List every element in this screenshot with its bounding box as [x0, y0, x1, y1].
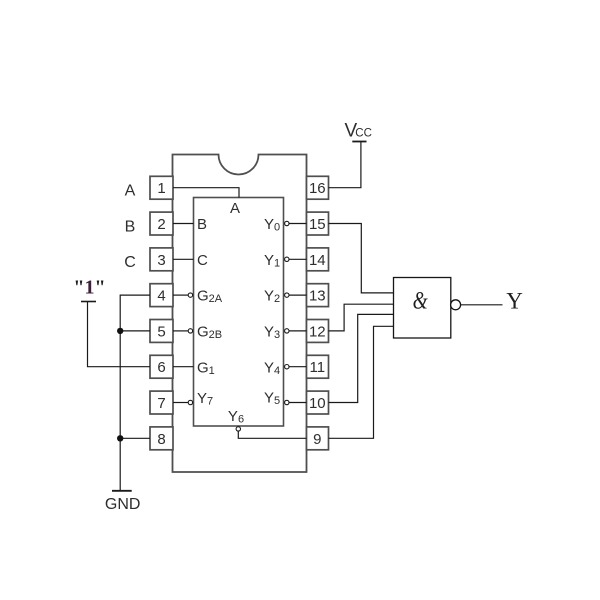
wire rail to pin5 [120, 330, 150, 332]
logic-1 source symbol [73, 277, 105, 302]
pin 6 box [150, 355, 173, 378]
svg-text:3: 3 [274, 329, 280, 341]
wire Y3 to pin12 [289, 330, 307, 332]
Vcc symbol [345, 121, 372, 142]
inversion bubble Y7 [188, 400, 192, 404]
svg-text:&: & [413, 286, 429, 314]
wire Y1 to pin14 [289, 258, 307, 260]
svg-text:4: 4 [157, 288, 165, 305]
pin 14 box [307, 248, 329, 271]
svg-text:Y: Y [264, 390, 274, 407]
junction dot pin8 rail [117, 435, 123, 441]
inversion bubble Y4 [285, 365, 289, 369]
gate output inversion bubble [451, 300, 461, 310]
inversion bubble Y0 [285, 221, 289, 225]
svg-text:13: 13 [309, 288, 326, 305]
wire Y6 to pin9 [238, 431, 306, 438]
inversion bubble G2A [188, 293, 192, 297]
svg-text:CC: CC [355, 128, 372, 140]
svg-text:15: 15 [309, 216, 326, 233]
IC U1 body (74138 DIP outline with notch) [173, 155, 307, 473]
wire pin4 to G2A [173, 294, 188, 296]
pin 15 box [307, 212, 329, 235]
wire pin5 to G2B [173, 330, 188, 332]
inner logic block outline [194, 198, 284, 427]
junction dot pin5 rail [117, 328, 123, 334]
svg-text:Y: Y [506, 288, 523, 313]
svg-text:8: 8 [157, 431, 165, 448]
wire Y0 to pin15 [289, 223, 307, 225]
wire pin12 to gate input 2 [329, 304, 394, 331]
svg-text:9: 9 [313, 431, 321, 448]
svg-text:Y: Y [264, 359, 274, 376]
inversion bubble Y2 [285, 293, 289, 297]
svg-text:5: 5 [157, 323, 165, 340]
NAND gate U2 body [394, 278, 451, 339]
svg-text:1: 1 [274, 257, 280, 269]
wire Y4 to pin11 [289, 366, 307, 368]
inversion bubble Y5 [285, 400, 289, 404]
svg-text:11: 11 [310, 359, 326, 376]
pin 5 box [150, 320, 173, 343]
pin 13 box [307, 284, 329, 307]
wire pin2 to B [173, 223, 194, 225]
svg-text:12: 12 [309, 323, 326, 340]
pin 4 box [150, 284, 173, 307]
wire pin1 to input A [173, 188, 239, 198]
wire pin9 to gate input 4 [329, 326, 394, 438]
wire pin3 to C [173, 258, 194, 260]
wire pin10 to gate input 3 [329, 314, 394, 402]
svg-text:0: 0 [274, 222, 280, 234]
wire pin15 to gate input 1 [329, 224, 394, 293]
svg-text:2: 2 [274, 293, 280, 305]
svg-text:2: 2 [157, 216, 165, 233]
pin 16 box [307, 176, 329, 199]
inversion bubble Y3 [285, 329, 289, 333]
wire Y5 to pin10 [289, 402, 307, 404]
svg-text:3: 3 [157, 252, 165, 269]
wire ground rail (pin4 corner down to GND) [120, 295, 150, 491]
svg-text:4: 4 [274, 365, 280, 377]
pin 9 box [307, 427, 329, 450]
inversion bubble G2B [188, 329, 192, 333]
svg-text:Y: Y [264, 216, 274, 233]
svg-text:7: 7 [157, 395, 165, 412]
svg-text:B: B [197, 216, 207, 233]
svg-text:Y: Y [264, 252, 274, 269]
svg-text:A: A [125, 183, 136, 200]
svg-text:6: 6 [157, 359, 165, 376]
svg-text:C: C [197, 252, 208, 269]
wire logic-1 to pin6 [88, 302, 151, 367]
svg-text:C: C [124, 254, 136, 271]
svg-text:14: 14 [309, 252, 326, 269]
svg-text:GND: GND [105, 496, 141, 513]
svg-text:Y: Y [264, 288, 274, 305]
pin 10 box [307, 391, 329, 414]
svg-text:10: 10 [309, 395, 326, 412]
ground symbol [105, 491, 141, 513]
wire rail to pin8 [120, 437, 150, 439]
svg-text:1: 1 [157, 180, 165, 197]
wire Y2 to pin13 [289, 294, 307, 296]
wire pin16 to Vcc [329, 142, 361, 188]
pin 1 box [150, 176, 173, 199]
inversion bubble Y6 [236, 427, 240, 431]
svg-text:"1": "1" [73, 277, 105, 299]
inversion bubble Y1 [285, 257, 289, 261]
svg-text:B: B [125, 218, 136, 235]
svg-text:Y: Y [264, 324, 274, 341]
pin 2 box [150, 212, 173, 235]
pin 12 box [307, 320, 329, 343]
svg-text:5: 5 [274, 395, 280, 407]
svg-text:A: A [230, 200, 240, 217]
svg-text:16: 16 [309, 180, 326, 197]
wire pin7 to Y7 [173, 402, 188, 404]
pin 7 box [150, 391, 173, 414]
wire pin6 to G1 [173, 366, 194, 368]
pin 3 box [150, 248, 173, 271]
wire gate output to Y [461, 304, 503, 306]
pin 8 box [150, 427, 173, 450]
pin 11 box [307, 355, 329, 378]
